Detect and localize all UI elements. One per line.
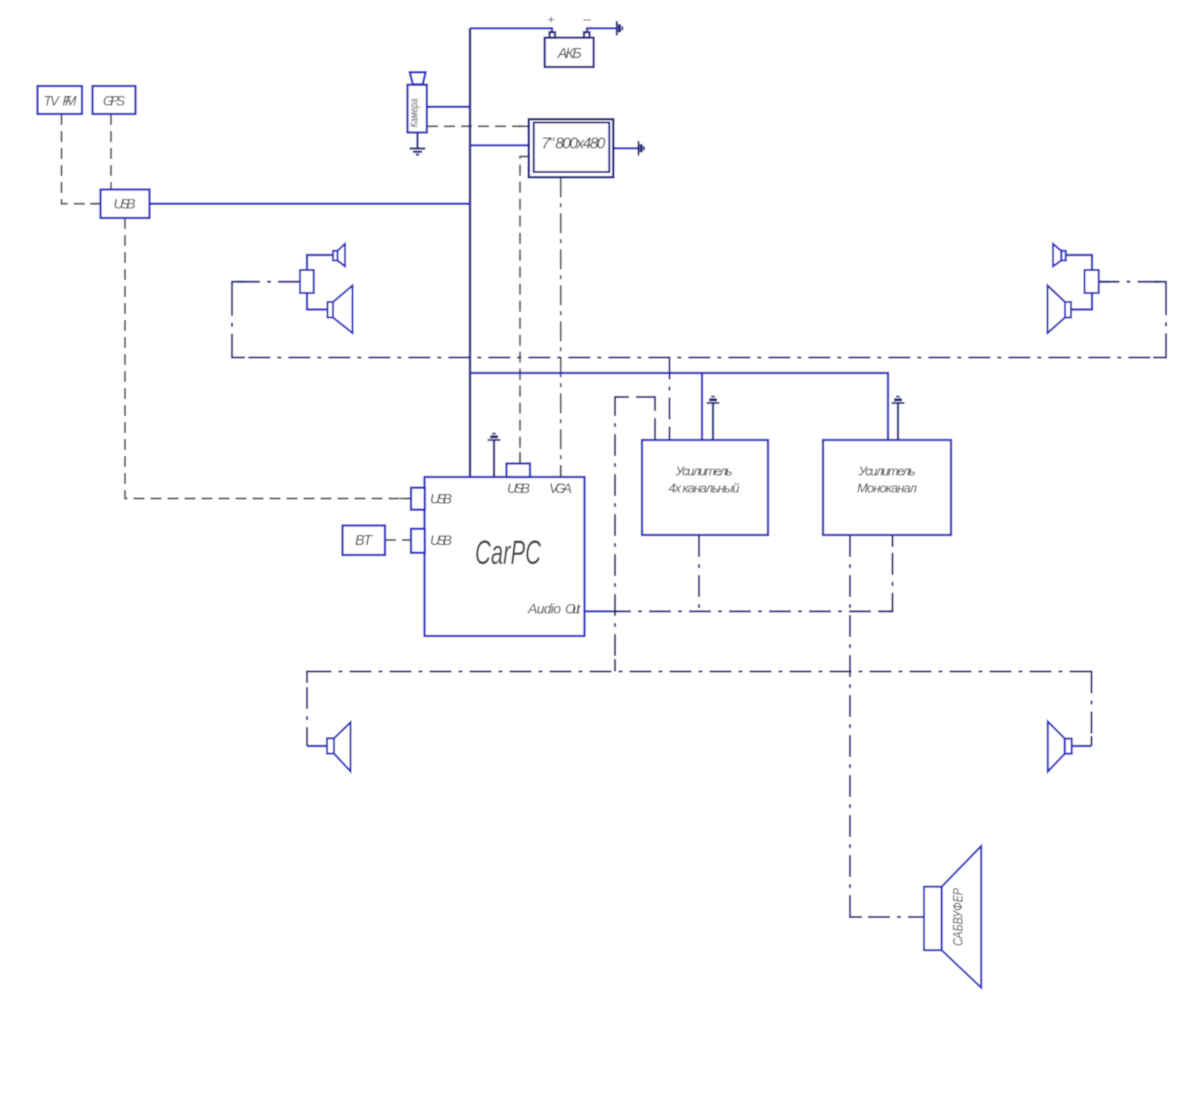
svg-text:USB: USB [430,532,452,548]
svg-text:Audio: Audio [527,601,561,617]
svg-text:Усилитель: Усилитель [858,464,916,479]
svg-text:BT: BT [355,533,373,549]
svg-text:Усилитель: Усилитель [675,464,733,479]
svg-text:САБВУФЕР: САБВУФЕР [951,888,966,946]
svg-text:7" 800x480: 7" 800x480 [541,136,605,153]
svg-text:Out: Out [565,601,581,617]
svg-text:–: – [582,12,591,27]
svg-text:USB: USB [114,196,136,212]
svg-text:Моноканал: Моноканал [857,481,918,496]
svg-text:USB: USB [430,491,452,507]
svg-text:GPS: GPS [103,94,125,109]
svg-text:TV: TV [44,94,61,109]
svg-text:+: + [547,13,554,27]
svg-text:Камера: Камера [409,99,421,128]
svg-text:CarPC: CarPC [475,534,541,572]
svg-text:VGA: VGA [549,480,572,496]
svg-text:USB: USB [507,480,530,496]
svg-text:4х канальный: 4х канальный [669,481,740,496]
svg-text:АКБ: АКБ [557,46,582,62]
svg-text:FM: FM [63,94,78,109]
